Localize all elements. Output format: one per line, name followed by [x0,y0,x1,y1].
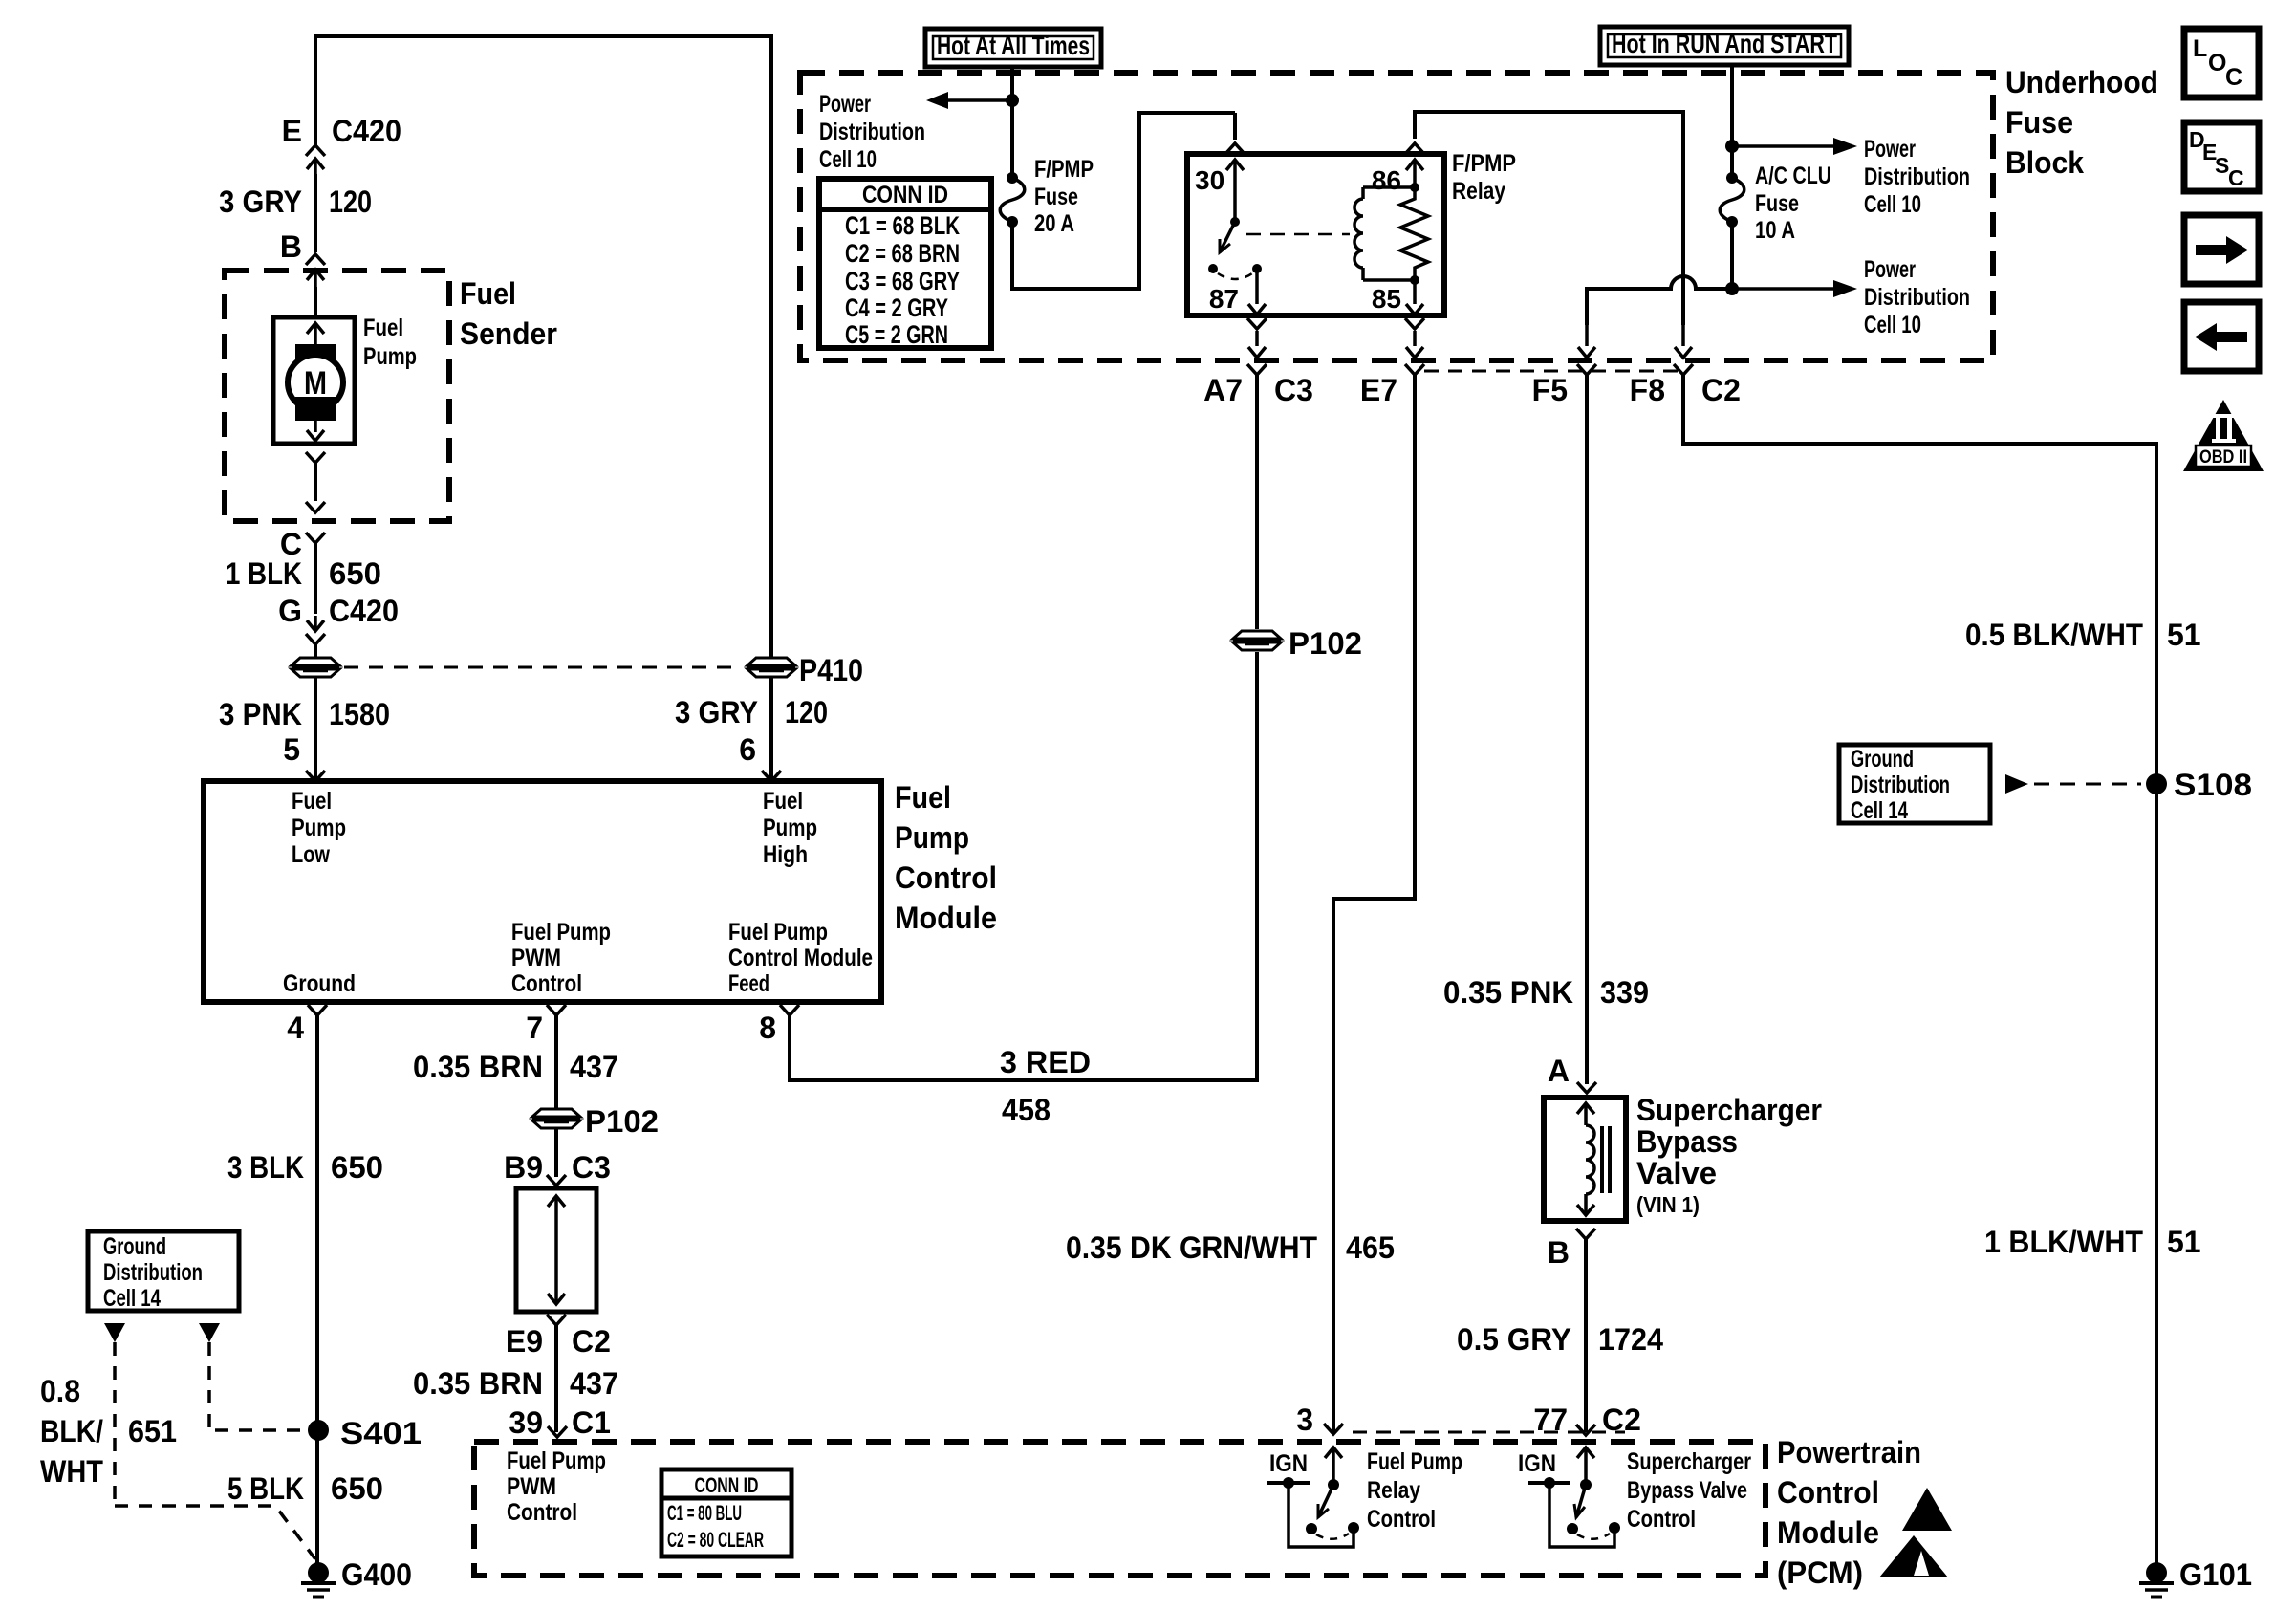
wire [314,678,317,779]
dashed wire 651 [115,1342,315,1559]
wire [315,1015,319,1573]
label P102 [585,1104,659,1139]
wire [314,34,773,658]
svg-text:Pump: Pump [763,815,817,841]
inline connector P102 [532,1109,580,1128]
svg-text:C1: C1 [572,1405,611,1440]
connector below motor [306,452,325,512]
relay coil [1354,183,1419,280]
svg-text:C3: C3 [572,1150,611,1185]
svg-text:Valve: Valve [1636,1156,1717,1190]
svg-text:Cell 10: Cell 10 [1864,312,1921,338]
connector C [306,533,325,543]
relay pin86 arrow [1406,160,1423,184]
connector A7 below boundary [1247,364,1267,375]
thin dashed connector line C2 [1353,1431,1625,1434]
icon OBD II [2183,400,2264,471]
label Fuel Pump Low [292,788,346,868]
label S108 [2174,768,2252,802]
label pin 4 [287,1011,304,1045]
label B [280,229,302,264]
svg-text:458: 458 [1002,1093,1051,1127]
label Fuel Sender [460,276,557,351]
label Supercharger Bypass Valve Control [1627,1448,1751,1533]
svg-text:0.35 DK GRN/WHT: 0.35 DK GRN/WHT [1066,1230,1317,1265]
connector F5 [1577,325,1596,375]
svg-text:F5: F5 [1532,373,1568,407]
esd symbol [1879,1488,1952,1577]
svg-text:OBD II: OBD II [2199,447,2247,468]
label 87 [1209,284,1239,314]
connector E7 below boundary [1405,364,1424,375]
wire [554,1015,558,1108]
connector pin 77 [1576,1425,1595,1435]
label A7 C3 [1203,373,1313,407]
svg-text:F/PMP: F/PMP [1452,150,1516,177]
svg-text:Distribution: Distribution [103,1259,203,1286]
svg-text:Low: Low [292,841,330,868]
label Underhood Fuse Block [2005,65,2158,180]
svg-text:437: 437 [570,1050,618,1084]
wire [554,1129,558,1177]
label P102 [1289,626,1362,661]
conn id table [819,179,991,349]
svg-text:Powertrain: Powertrain [1777,1435,1921,1469]
svg-text:Power: Power [819,91,871,118]
wire 3 RED 458 [788,1015,1259,1080]
pointer triangle [199,1323,220,1342]
svg-text:Fuel Pump: Fuel Pump [728,919,828,946]
label 458 [1002,1093,1051,1127]
svg-text:Cell 10: Cell 10 [819,146,877,173]
thin dashed connector line [1424,370,1680,373]
label 0.5 GRY 1724 [1457,1322,1663,1357]
label IGN [1269,1450,1308,1477]
svg-text:Module: Module [1777,1515,1879,1550]
wire [1010,67,1014,178]
wire [314,543,317,614]
svg-text:86: 86 [1372,165,1401,195]
svg-text:Fuel: Fuel [363,315,403,341]
dashed wire to S401 [209,1342,306,1430]
svg-text:Pump: Pump [895,820,969,855]
svg-text:C2 = 68 BRN: C2 = 68 BRN [845,239,960,268]
junction [1725,140,1739,153]
svg-text:P102: P102 [585,1104,659,1139]
svg-text:1 BLK/WHT: 1 BLK/WHT [1984,1225,2143,1259]
fuel pump control module box [204,781,881,1002]
label 3 BLK 650 [227,1150,383,1185]
svg-text:Control: Control [1627,1506,1696,1533]
svg-text:20 A: 20 A [1034,210,1074,237]
svg-text:O: O [2208,50,2226,76]
wire 465 [1332,375,1417,1433]
label 0.35 PNK 339 [1443,975,1649,1010]
svg-text:Control: Control [895,860,997,895]
svg-text:M: M [304,365,327,402]
svg-text:C5 = 2 GRN: C5 = 2 GRN [845,320,948,349]
svg-text:(PCM): (PCM) [1777,1556,1863,1590]
pin 7 chevron [547,1005,566,1015]
relay F/PMP box [1187,154,1444,315]
svg-text:Fuse: Fuse [2005,105,2073,140]
svg-text:5 BLK: 5 BLK [227,1471,304,1506]
relay switch [1208,217,1266,315]
svg-text:High: High [763,841,808,868]
supercharger bypass valve box [1544,1098,1626,1221]
svg-text:G101: G101 [2179,1557,2252,1592]
label E9 C2 [506,1324,611,1359]
label E [282,114,302,148]
svg-text:0.35 BRN: 0.35 BRN [413,1366,543,1401]
svg-text:IGN: IGN [1518,1450,1556,1477]
svg-text:Supercharger: Supercharger [1627,1448,1751,1475]
svg-text:651: 651 [128,1414,177,1448]
svg-text:87: 87 [1209,284,1239,314]
svg-text:Block: Block [2005,145,2084,180]
svg-text:650: 650 [329,556,381,591]
label A [1548,1054,1570,1088]
svg-text:Ground: Ground [1851,746,1914,772]
connector E C420 [306,145,325,174]
label F/PMP Relay [1452,150,1516,205]
fuel pump motor M1 [273,317,355,444]
svg-text:Distribution: Distribution [1864,284,1970,311]
label pin 7 [526,1011,543,1045]
wire [1730,65,1734,178]
svg-text:P102: P102 [1289,626,1362,661]
connector A7 above boundary [1247,318,1267,358]
label Power Distribution Cell 10 [1864,256,1970,338]
label 5 BLK 650 [227,1471,383,1506]
svg-text:Fuel: Fuel [895,780,951,815]
svg-text:Supercharger: Supercharger [1636,1093,1822,1127]
svg-text:C2: C2 [1602,1403,1641,1437]
connector G [306,616,325,644]
connector relay pin 30 [1225,143,1245,154]
svg-text:F8: F8 [1630,373,1665,407]
svg-text:Fuse: Fuse [1755,190,1799,217]
connector E7 above boundary [1405,318,1424,358]
svg-text:Power: Power [1864,136,1916,163]
svg-text:WHT: WHT [40,1454,103,1489]
label 3 GRY 120 [675,695,828,729]
svg-text:E: E [282,114,302,148]
label 85 [1372,284,1401,314]
connector pin 3 [1324,1424,1343,1434]
svg-text:5: 5 [283,732,300,767]
pointer triangle [104,1323,125,1342]
label 39 C1 [509,1405,611,1440]
wire [1584,1239,1588,1432]
label Fuel Pump [363,315,417,370]
svg-text:Control: Control [1367,1506,1436,1533]
svg-text:C2: C2 [572,1324,611,1359]
svg-text:C420: C420 [329,594,399,628]
svg-text:1580: 1580 [329,697,390,731]
underhood fuse block dashed box [800,73,1993,360]
svg-text:120: 120 [329,185,372,219]
icon arrow left [2184,302,2259,371]
svg-text:C4 = 2 GRY: C4 = 2 GRY [845,294,948,322]
svg-text:Fuel: Fuel [763,788,803,815]
arrow to power distribution [926,92,1012,109]
wire [314,287,317,319]
svg-text:437: 437 [570,1366,618,1401]
wire [554,1325,558,1432]
splice S401 [308,1420,329,1441]
svg-text:CONN ID: CONN ID [695,1473,759,1497]
svg-text:85: 85 [1372,284,1401,314]
svg-text:0.35 BRN: 0.35 BRN [413,1050,543,1084]
svg-text:Hot In RUN And START: Hot In RUN And START [1612,29,1837,58]
label E7 [1360,373,1397,407]
label IGN [1518,1450,1556,1477]
wire F5 down [1585,375,1589,1084]
svg-text:Underhood: Underhood [2005,65,2158,99]
wire with hop [1587,276,1732,325]
ground G101 [2139,1562,2174,1597]
label Fuel Pump PWM Control [507,1447,606,1526]
label G C420 [278,594,399,628]
svg-text:G: G [278,594,302,628]
arrow to power distribution [1732,280,1857,297]
svg-text:S108: S108 [2174,768,2252,802]
svg-text:3 PNK: 3 PNK [219,697,302,731]
label G101 [2179,1557,2252,1592]
svg-text:3 GRY: 3 GRY [675,695,758,729]
label B [1548,1235,1570,1270]
label 77 C2 [1533,1403,1641,1437]
ground distribution cell 14 box (left) [88,1231,239,1312]
pin 8 chevron [780,1005,799,1015]
label Power Distribution Cell 10 [1864,136,1970,218]
pcm switch supercharger bypass valve control [1528,1447,1620,1547]
label pin 5 [283,732,300,767]
svg-text:E7: E7 [1360,373,1397,407]
svg-text:465: 465 [1346,1230,1395,1265]
label 0.35 BRN 437 [413,1050,618,1084]
svg-text:C1 = 80 BLU: C1 = 80 BLU [667,1501,742,1525]
svg-text:7: 7 [526,1011,543,1045]
svg-text:BLK/: BLK/ [40,1414,103,1448]
svg-text:0.5 GRY: 0.5 GRY [1457,1322,1571,1357]
relay pin30 arrow [1226,160,1244,218]
svg-text:77: 77 [1533,1403,1568,1437]
connector valve A [1577,1082,1596,1093]
label F8 C2 [1630,373,1741,407]
svg-text:Fuel Pump: Fuel Pump [507,1447,606,1474]
underhood fuse block (small) box [516,1188,596,1312]
svg-text:Feed: Feed [728,970,769,997]
wire [1730,222,1734,289]
label 3 PNK 1580 [219,697,390,731]
svg-text:1724: 1724 [1598,1322,1663,1357]
connector relay pin 86 [1405,143,1424,154]
junction [1006,94,1019,107]
label B9 C3 [504,1150,611,1185]
label F5 [1532,373,1568,407]
conn id table 2 [661,1469,791,1556]
wire [1255,652,1259,1082]
svg-text:Control: Control [1777,1475,1879,1510]
svg-text:A: A [1548,1054,1570,1088]
svg-text:(VIN 1): (VIN 1) [1636,1192,1700,1217]
label 3 RED [1000,1045,1091,1079]
svg-text:E9: E9 [506,1324,543,1359]
dashed connector link [344,666,742,669]
svg-text:B: B [1548,1235,1570,1270]
svg-text:120: 120 [785,695,828,729]
ground G400 [301,1562,336,1597]
icon DESC [2184,122,2259,191]
pcm switch fuel pump relay control [1267,1447,1359,1547]
label 0.8 BLK/ WHT 651 [40,1374,177,1489]
svg-text:C2 = 80 CLEAR: C2 = 80 CLEAR [667,1528,764,1552]
label 0.5 BLK/WHT 51 [1965,618,2201,652]
flag Hot At All Times [925,29,1101,67]
svg-text:0.5 BLK/WHT: 0.5 BLK/WHT [1965,618,2143,652]
fuse F/PMP 20A [1000,172,1025,228]
svg-text:Relay: Relay [1452,178,1505,205]
svg-text:C2: C2 [1701,373,1741,407]
svg-text:Distribution: Distribution [1864,163,1970,190]
svg-text:Bypass Valve: Bypass Valve [1627,1477,1747,1504]
junction [1725,282,1739,295]
svg-text:39: 39 [509,1405,543,1440]
label Power Distribution Cell 10 [819,91,925,173]
wire [1255,375,1259,629]
pointer [2005,774,2141,794]
svg-text:Control: Control [507,1499,577,1526]
powertrain control module dashed box [474,1442,1765,1576]
label Powertrain Control Module (PCM) [1777,1435,1921,1590]
svg-text:8: 8 [759,1011,776,1045]
svg-text:Cell 10: Cell 10 [1864,191,1921,218]
label C [280,527,302,561]
label 1 BLK 650 [226,556,381,591]
inline connector P102 (2) [1233,631,1281,650]
svg-text:Module: Module [895,901,997,935]
pin 5 chevron [306,771,325,781]
svg-text:6: 6 [739,732,756,767]
svg-text:CONN ID: CONN ID [862,182,948,208]
label 3 GRY 120 [219,185,372,219]
svg-text:C: C [2228,165,2244,190]
svg-text:650: 650 [331,1471,383,1506]
svg-text:C3 = 68 GRY: C3 = 68 GRY [845,267,960,295]
connector pin 39 [548,1426,567,1437]
svg-text:IGN: IGN [1269,1450,1308,1477]
svg-text:3 BLK: 3 BLK [227,1150,304,1185]
connector E9 C2 [547,1315,566,1325]
splice S108 [2146,773,2167,794]
svg-text:3: 3 [1296,1403,1313,1437]
svg-text:F/PMP: F/PMP [1034,156,1094,183]
label 0.35 DK GRN/WHT 465 [1066,1230,1395,1265]
svg-text:3 GRY: 3 GRY [219,185,302,219]
fuse block arrow [548,1196,565,1304]
icon arrow right [2184,215,2259,284]
svg-text:L: L [2193,35,2207,62]
label Ground [283,970,356,997]
svg-text:4: 4 [287,1011,304,1045]
svg-text:51: 51 [2167,1225,2201,1259]
inline connector P410 [747,658,795,677]
relay resistor [1400,187,1428,280]
connector valve B [1576,1229,1595,1239]
svg-text:Cell 14: Cell 14 [103,1285,161,1312]
svg-text:Hot At All Times: Hot At All Times [937,31,1090,60]
connector F8 [1674,325,1693,375]
pin 6 chevron [762,771,781,781]
inline connector (left of P410 pair) [292,658,339,677]
svg-text:Fuel Pump: Fuel Pump [1367,1448,1462,1475]
svg-text:51: 51 [2167,618,2201,652]
svg-text:10 A: 10 A [1755,217,1795,244]
wire [314,174,317,252]
svg-text:Fuel Pump: Fuel Pump [511,919,611,946]
label G400 [341,1557,412,1592]
relay pin85 [1406,275,1423,315]
wire [1681,375,2156,1573]
svg-text:A7: A7 [1203,373,1243,407]
svg-text:Control Module: Control Module [728,945,873,971]
svg-text:PWM: PWM [507,1473,556,1500]
svg-text:Distribution: Distribution [819,119,925,145]
label pin 6 [739,732,756,767]
wire pin86 to F8 [1413,110,1683,325]
svg-text:0.35 PNK: 0.35 PNK [1443,975,1573,1010]
svg-text:0.8: 0.8 [40,1374,80,1408]
svg-text:C: C [2225,64,2242,91]
svg-text:Control: Control [511,970,582,997]
valve coil [1577,1103,1594,1215]
label 3 [1296,1403,1313,1437]
svg-text:Bypass: Bypass [1636,1124,1738,1159]
valve core bars [1602,1126,1610,1193]
svg-text:Ground: Ground [283,970,356,997]
svg-text:Cell 14: Cell 14 [1851,797,1908,824]
flag Hot In RUN And START [1600,27,1849,65]
label Fuel Pump PWM Control [511,919,611,997]
svg-text:30: 30 [1195,165,1224,195]
svg-text:B9: B9 [504,1150,543,1185]
label P410 [799,653,863,687]
connector B9 C3 [547,1175,566,1186]
svg-text:S401: S401 [340,1416,422,1450]
label pin 8 [759,1011,776,1045]
arrow to power distribution [1732,138,1857,155]
svg-text:650: 650 [331,1150,383,1185]
label Fuel Pump Relay Control [1367,1448,1462,1533]
svg-text:A/C CLU: A/C CLU [1755,163,1831,189]
connector B [306,254,325,287]
ground distribution cell 14 box (right) [1839,745,1990,824]
label F/PMP Fuse 20 A [1034,156,1094,237]
svg-text:C1 = 68 BLK: C1 = 68 BLK [845,211,960,240]
wire relay feed [1010,113,1235,291]
svg-text:Distribution: Distribution [1851,772,1950,798]
svg-text:B: B [280,229,302,264]
svg-text:Pump: Pump [292,815,346,841]
label Fuel Pump High [763,788,817,868]
svg-text:Sender: Sender [460,316,557,351]
label 86 [1372,165,1401,195]
svg-text:P410: P410 [799,653,863,687]
wire [769,678,773,779]
wire [314,644,317,657]
